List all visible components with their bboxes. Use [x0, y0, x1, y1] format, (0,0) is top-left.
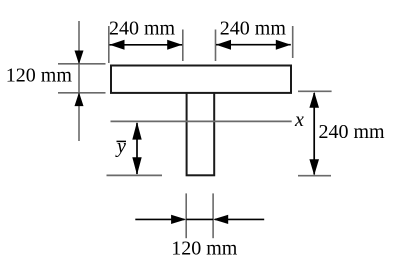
- bottom dimension 120 mm: extension line left: [185, 193, 187, 238]
- svg-text:120 mm: 120 mm: [6, 65, 73, 87]
- y-bar dimension: vertical double-headed arrow line: [136, 123, 138, 174]
- svg-text:240 mm: 240 mm: [319, 121, 386, 143]
- left dimension 120 mm: extension line bottom: [58, 92, 106, 94]
- top left dimension 240 mm: arrowhead pointing right: [167, 40, 182, 50]
- svg-text:y: y: [115, 136, 126, 158]
- top left dimension 240 mm: dimension line: [110, 44, 183, 46]
- web rectangle of T-section: [187, 91, 215, 175]
- y-bar dimension: arrowhead pointing up: [132, 122, 141, 140]
- top right dimension 240 mm: dimension line: [216, 44, 291, 46]
- top dimensions: extension line mid left: [182, 30, 184, 62]
- top dimensions: extension line far left: [108, 26, 110, 63]
- y-bar dimension: bottom tick at web bottom level: [107, 174, 163, 176]
- left dimension 120 mm: extension line top: [58, 63, 106, 65]
- top dimensions: extension line far right: [292, 26, 294, 58]
- left dimension 120 mm: vertical dimension line: [78, 21, 80, 141]
- left dimension 120 mm: arrowhead pointing up: [75, 92, 84, 106]
- svg-text:240 mm: 240 mm: [109, 18, 176, 40]
- svg-text:x: x: [294, 109, 304, 131]
- y-bar overbar: [117, 140, 127, 142]
- bottom dimension 120 mm: middle segment between extension lines: [186, 218, 213, 220]
- bottom dimension 120 mm: extension line right: [212, 193, 214, 238]
- right dimension 240 mm: vertical dimension line: [313, 93, 315, 175]
- right dimension 240 mm: tick bottom: [298, 175, 331, 177]
- top left dimension 240 mm: arrowhead pointing left: [110, 40, 125, 50]
- svg-text:120 mm: 120 mm: [171, 238, 238, 260]
- right dimension 240 mm: tick top: [298, 90, 332, 92]
- top dimensions: extension line mid right: [215, 30, 217, 62]
- flange rectangle of T-section: [111, 66, 291, 93]
- bottom dimension 120 mm: right leader line: [215, 218, 264, 220]
- top right dimension 240 mm: arrowhead pointing right: [276, 40, 291, 50]
- bottom dimension 120 mm: arrowhead pointing left: [213, 215, 228, 224]
- bottom dimension 120 mm: arrowhead pointing right: [171, 215, 186, 224]
- top right dimension 240 mm: arrowhead pointing left: [216, 40, 231, 50]
- svg-text:240 mm: 240 mm: [220, 17, 287, 39]
- y-bar dimension: arrowhead pointing down: [132, 157, 141, 175]
- left dimension 120 mm: arrowhead pointing down: [75, 51, 84, 65]
- right dimension 240 mm: arrowhead pointing down: [309, 159, 319, 175]
- right dimension 240 mm: arrowhead pointing up: [309, 92, 319, 108]
- bottom dimension 120 mm: left leader line: [135, 218, 184, 220]
- x axis centroid line: [111, 120, 292, 122]
